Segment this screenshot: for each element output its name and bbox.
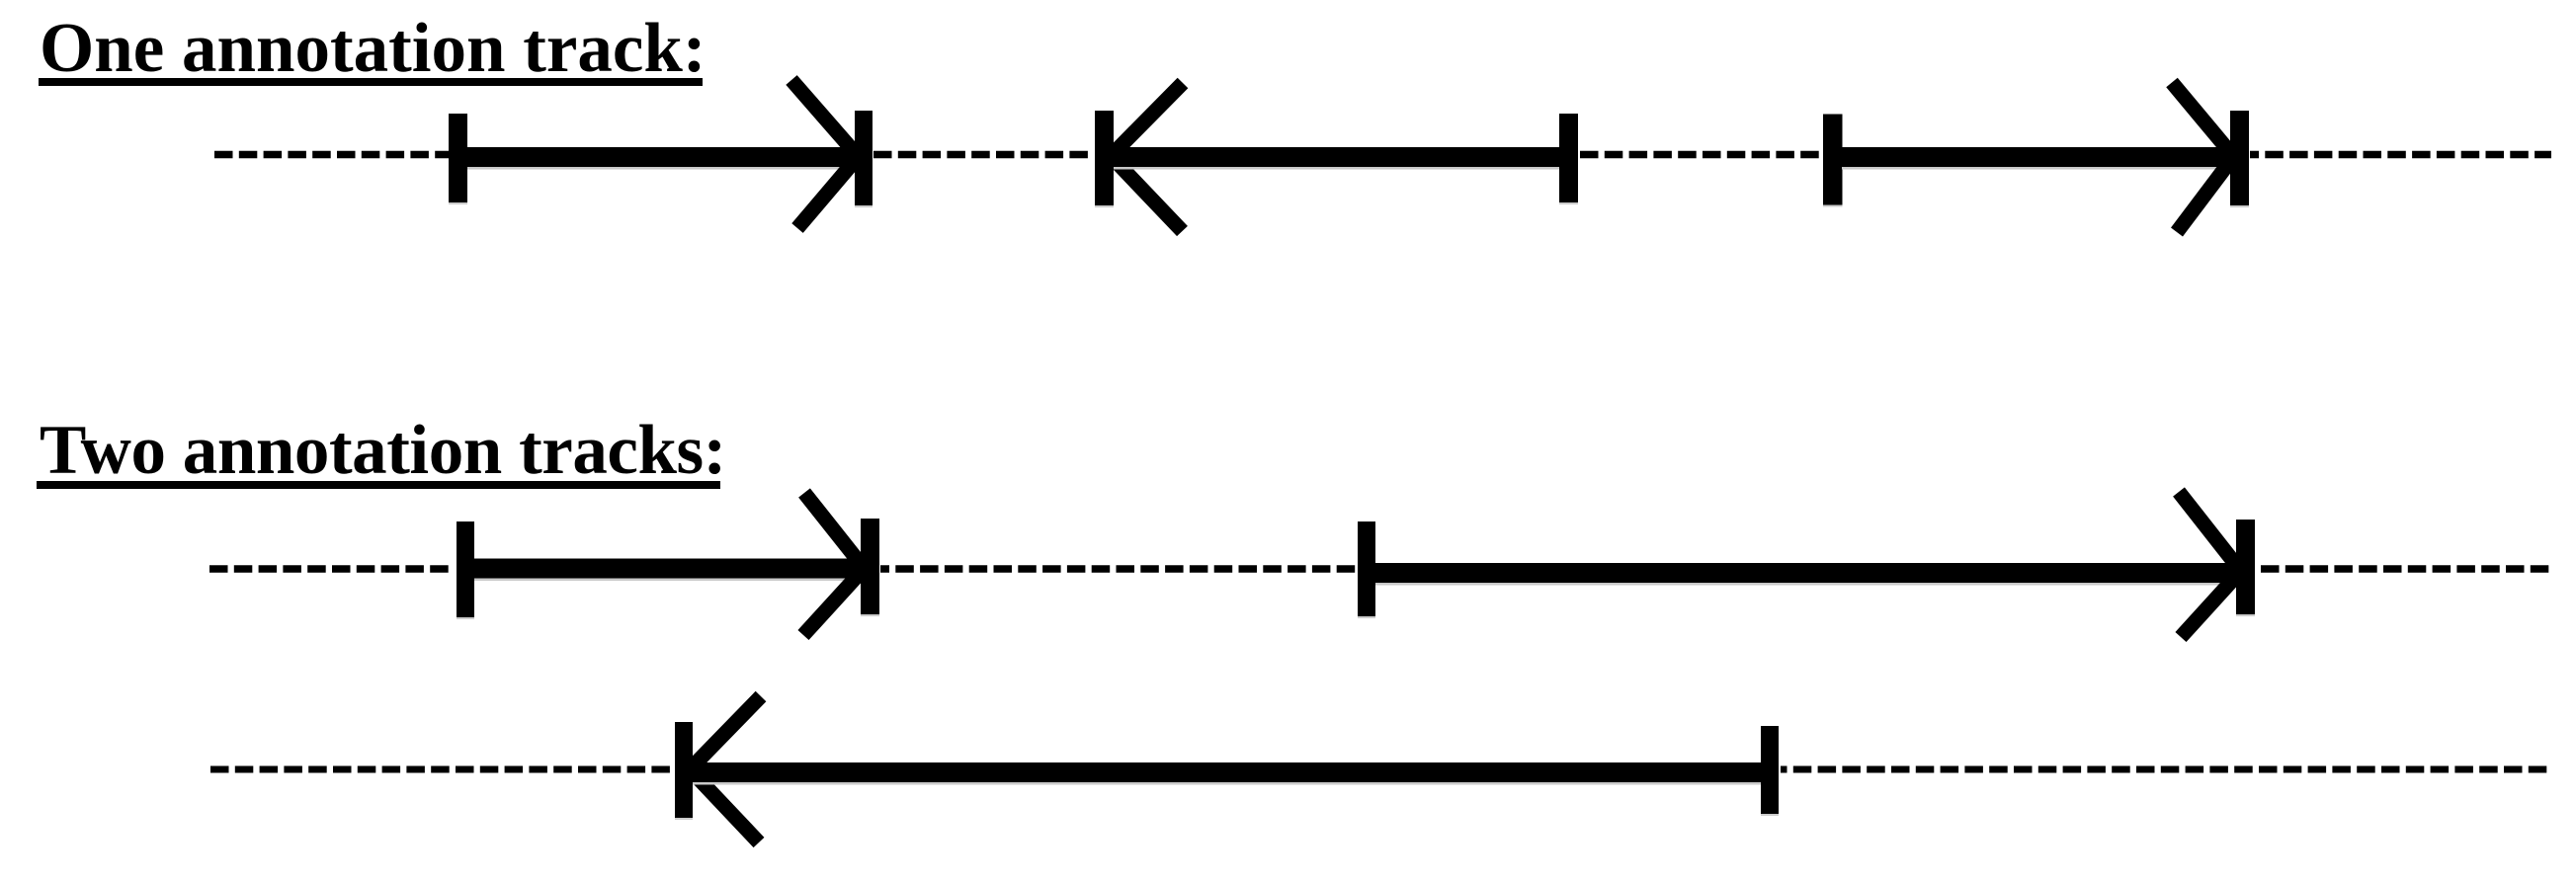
- track 3, gene arrow: head lower stroke: [691, 770, 759, 842]
- track 2, gene arrow 1: head upper stroke: [804, 493, 865, 569]
- track 1, gene arrow 1: head lower stroke: [797, 156, 859, 228]
- track 1, gene arrow 1: head tip bar: [855, 111, 873, 205]
- track 2, gene arrow 1: shadow under body: [474, 579, 861, 582]
- track 2, gene arrow 2: head lower stroke: [2181, 572, 2240, 637]
- track 2, gene arrow 2 (forward): start tick: [1358, 521, 1375, 616]
- track 3 (lower of two): dashed genome line, segment A (left): [210, 766, 675, 773]
- track 2 (upper of two): dashed genome line, segment A: [209, 565, 453, 573]
- track 1, gene arrow 3: head lower stroke: [2177, 156, 2234, 232]
- track 3, gene arrow: head upper stroke: [691, 696, 761, 768]
- track 2, gene arrow 2: head upper stroke: [2179, 492, 2240, 570]
- track 1, gene arrow 1 (forward): start tick: [449, 114, 467, 202]
- track 1, gene arrow 2 (reverse): head tip bar: [1095, 111, 1114, 205]
- track 2, gene arrow 1 (forward): start tick: [457, 521, 474, 617]
- track 3, gene arrow: body line: [684, 762, 1770, 782]
- track 2, gene arrow 2: body line: [1367, 563, 2245, 583]
- track 1: dashed genome line, segment D (right): [2250, 151, 2551, 159]
- track 1, gene arrow 2: shadow under body: [1114, 167, 1568, 170]
- track 2, gene arrow 2: shadow under body: [1375, 583, 2245, 586]
- underline of header 1: [39, 78, 703, 86]
- track 1, gene arrow 3: body line: [1833, 147, 2239, 167]
- header: "Two annotation tracks:": [40, 416, 726, 486]
- track 1: dashed genome line, segment B: [873, 151, 1092, 159]
- track 1, gene arrow 1: body line: [457, 147, 864, 167]
- track 1, gene arrow 3: head tip bar: [2230, 111, 2249, 205]
- track 3, gene arrow: shadow under body: [693, 782, 1770, 785]
- track 1, gene arrow 3: shadow under body: [1842, 167, 2230, 170]
- track 1, gene arrow 1: head upper stroke: [791, 80, 859, 157]
- track 1: dashed genome line, segment C: [1580, 151, 1822, 159]
- track 2: dashed genome line, segment B: [880, 565, 1358, 573]
- track 1, gene arrow 3: head upper stroke: [2172, 83, 2234, 158]
- track 2: dashed genome line, segment C (right): [2261, 565, 2549, 573]
- track 1, gene arrow 2: end tick: [1559, 114, 1578, 202]
- track 3, gene arrow: end tick: [1761, 726, 1779, 814]
- track 1, gene arrow 3 (forward): start tick: [1823, 115, 1843, 205]
- track 1, gene arrow 2: head upper stroke: [1112, 83, 1183, 155]
- track 2, gene arrow 2: head tip bar: [2236, 520, 2255, 614]
- track 3, gene arrow (reverse): head tip bar: [675, 722, 693, 818]
- track 1, gene arrow 2: body line: [1104, 147, 1568, 167]
- track 1, gene arrow 1: shadow under body: [467, 167, 855, 170]
- track 1: dashed genome line, segment A (left): [214, 151, 449, 159]
- track 2, gene arrow 1: body line: [465, 559, 870, 579]
- underline of header 2: [37, 481, 720, 489]
- header: "One annotation track:": [40, 14, 706, 84]
- track 2, gene arrow 1: head tip bar: [861, 519, 879, 614]
- track 1, gene arrow 2: head lower stroke: [1112, 157, 1183, 231]
- track 2, gene arrow 1: head lower stroke: [803, 568, 865, 635]
- track 3: dashed genome line, segment B (right): [1781, 766, 2549, 773]
